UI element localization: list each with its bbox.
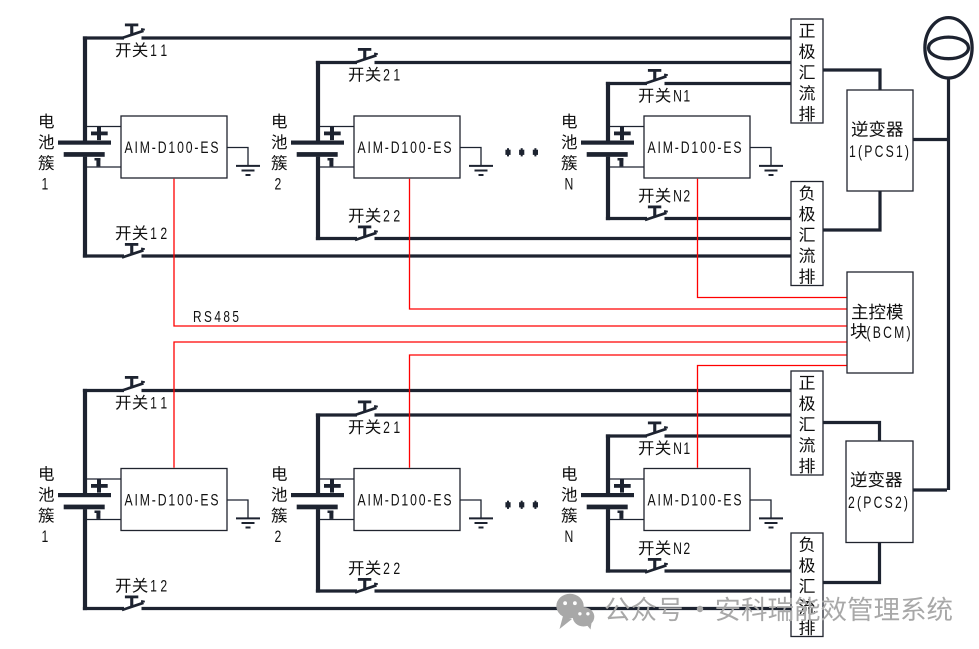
label 电池簇1 (40, 466, 54, 481)
svg-text:N2: N2 (673, 540, 690, 558)
switch 开关21 (355, 401, 378, 416)
wire: battery 1 sense leads to AIM module (87, 126, 121, 128)
watermark wechat icon (556, 594, 594, 630)
label 开关11 (116, 396, 131, 410)
wire: cluster 1 positive riser + top run to bus (83, 389, 87, 493)
wire: PCS2 to transformer bus (914, 488, 948, 491)
svg-text:2(PCS2): 2(PCS2) (848, 494, 908, 512)
wire: cluster 2 positive run after switch to positive busbar (375, 413, 792, 416)
RS485 link: AIM 2 (bottom) to BCM (410, 355, 847, 468)
wire: positive busbar 2 to PCS2 (824, 423, 880, 443)
wire (610, 519, 644, 521)
label 电池簇1 (40, 113, 54, 128)
wire: battery 1 sense leads to AIM module (87, 478, 121, 480)
switch 开关22 (355, 578, 378, 593)
negative busbar box (top) 负极汇流排 (791, 182, 823, 286)
label 开关11 (116, 43, 131, 57)
wire: cluster 1 positive riser + top run to bus (83, 36, 87, 140)
wire: cluster N negative riser + bottom run (606, 509, 610, 572)
RS485 link: AIM 1 (bottom) to BCM (174, 342, 847, 468)
wire: cluster N positive run after switch to positive busbar (665, 82, 792, 85)
ground (cluster 1 AIM) (227, 148, 260, 176)
wire: cluster N positive run after switch to positive busbar (665, 434, 792, 437)
label 开关22 (349, 209, 364, 223)
label 开关N2 (639, 541, 654, 555)
battery cluster 2: symbol (291, 127, 344, 166)
wire: battery 2 sense leads to AIM module (320, 126, 354, 128)
switch 开关11 (122, 376, 145, 391)
battery cluster N: symbol (581, 127, 634, 166)
transformer (grid) symbol (925, 18, 972, 78)
svg-text:N: N (565, 176, 574, 194)
svg-text:N: N (565, 529, 574, 547)
wire: cluster N negative riser + bottom run (606, 157, 610, 221)
label 开关22 (349, 561, 364, 575)
svg-text:RS485: RS485 (193, 307, 239, 325)
watermark text (605, 597, 629, 621)
wire: battery N sense leads to AIM module (610, 478, 644, 480)
positive busbar box (top) 正极汇流排 (791, 19, 823, 123)
RS485 link: AIM N (bottom) to BCM (698, 366, 847, 468)
label 开关21 (349, 420, 364, 434)
label 开关12 (116, 226, 131, 240)
battery cluster 1: symbol (58, 127, 111, 166)
svg-text:2: 2 (275, 529, 282, 547)
wire: cluster N positive riser + top run to bus (606, 434, 610, 493)
ground (cluster N AIM) (750, 500, 783, 528)
svg-text:1: 1 (42, 176, 49, 194)
wire: cluster 2 negative run after switch to negative busbar (375, 237, 792, 240)
AIM-D100-ES module (cluster 1) (121, 469, 227, 531)
wire: cluster 2 negative riser + bottom run (316, 509, 320, 592)
wire: cluster 2 negative run after switch to negative busbar (375, 589, 792, 592)
switch 开关N1 (645, 69, 668, 84)
wire: cluster 2 positive run after switch to positive busbar (375, 61, 792, 64)
switch 开关12 (122, 243, 145, 258)
battery cluster 2: symbol (291, 479, 344, 519)
svg-text:N1: N1 (673, 88, 690, 106)
switch 开关21 (355, 48, 378, 63)
wire: PCS1 negative to negative busbar (824, 192, 881, 231)
AIM-D100-ES module (cluster 2) (354, 116, 460, 178)
label 开关21 (349, 68, 364, 82)
wire: cluster 1 negative riser + bottom run (83, 157, 87, 258)
label 电池簇N (563, 113, 577, 128)
label 开关12 (116, 579, 131, 593)
svg-text:N2: N2 (673, 188, 690, 206)
wire (87, 519, 121, 521)
wire: battery N sense leads to AIM module (610, 126, 644, 128)
svg-text:2: 2 (275, 176, 282, 194)
wire: PCS1 to transformer bus (914, 138, 948, 141)
switch 开关N1 (645, 422, 668, 437)
wire (87, 166, 121, 168)
label 开关N1 (639, 89, 654, 103)
ellipsis dots (more clusters) (505, 148, 538, 156)
wire: cluster 1 positive run after switch to positive busbar (142, 36, 792, 39)
wire: PCS2 negative to negative busbar 2 (824, 543, 880, 583)
inverter 2 box 逆变器2(PCS2) (846, 441, 913, 543)
AIM-D100-ES module (cluster 1) (121, 116, 227, 178)
label 开关N1 (639, 441, 654, 455)
AIM-D100-ES module (cluster N) (644, 116, 750, 178)
switch 开关11 (122, 24, 145, 39)
svg-text:N1: N1 (673, 440, 690, 458)
wire: cluster 2 positive riser + top run to bus (316, 413, 320, 493)
wire: cluster 1 positive run after switch to positive busbar (142, 389, 792, 392)
wire: cluster 2 positive riser + top run to bus (316, 61, 320, 141)
svg-text:1(PCS1): 1(PCS1) (849, 143, 909, 161)
switch 开关22 (355, 226, 378, 241)
wire: cluster 1 negative run after switch to negative busbar (142, 607, 792, 610)
battery cluster 1: symbol (58, 479, 111, 519)
switch 开关N2 (645, 558, 668, 573)
wire: battery 2 sense leads to AIM module (320, 478, 354, 480)
wire (320, 519, 354, 521)
label 开关N2 (639, 189, 654, 203)
wire (320, 166, 354, 168)
AIM-D100-ES module (cluster 2) (354, 469, 460, 531)
ground (cluster 2 AIM) (460, 500, 493, 528)
label 电池簇N (563, 466, 577, 481)
switch 开关N2 (645, 206, 668, 221)
RS485 link: AIM 2 (top) to BCM (410, 179, 847, 309)
wire: cluster 1 negative run after switch to negative busbar (142, 254, 792, 257)
AIM-D100-ES module (cluster N) (644, 469, 750, 531)
battery cluster N: symbol (581, 479, 634, 519)
wire: cluster N negative run after switch to negative busbar (665, 569, 792, 572)
svg-text:1: 1 (42, 529, 49, 547)
wire (610, 166, 644, 168)
wire: cluster N positive riser + top run to bus (606, 82, 610, 141)
ground (cluster 2 AIM) (460, 148, 493, 176)
RS485 link: AIM N (top) to BCM (698, 179, 847, 298)
ground (cluster 1 AIM) (227, 500, 260, 528)
wire: AC bus vertical from transformer (947, 77, 950, 490)
RS485 link: AIM 1 (top) to BCM (174, 179, 847, 326)
label 电池簇2 (273, 466, 287, 481)
svg-text:(BCM): (BCM) (867, 324, 911, 342)
positive busbar box (bottom) 正极汇流排 (791, 371, 823, 475)
wire: cluster 2 negative riser + bottom run (316, 157, 320, 241)
switch 开关12 (122, 596, 145, 611)
wire: cluster 1 negative riser + bottom run (83, 509, 87, 610)
ground (cluster N AIM) (750, 148, 783, 176)
wire: cluster N negative run after switch to negative busbar (665, 217, 792, 220)
negative busbar box (bottom) 负极汇流排 (791, 533, 823, 637)
wire: positive busbar to PCS1 (824, 70, 881, 92)
label 电池簇2 (273, 113, 287, 128)
main control module box 主控模块(BCM) (847, 272, 913, 373)
inverter 1 box 逆变器1(PCS1) (847, 90, 913, 191)
ellipsis dots (more clusters) (505, 501, 538, 509)
